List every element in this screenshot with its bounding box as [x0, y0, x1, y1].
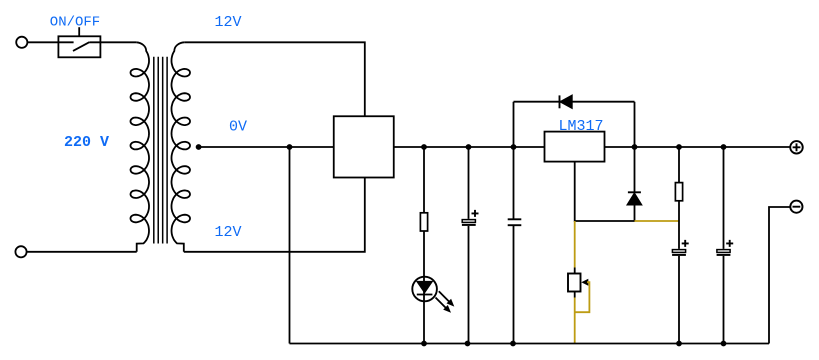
svg-text:12V: 12V — [215, 224, 242, 241]
node rail R2 branch — [676, 144, 682, 150]
LED D1 — [412, 277, 437, 302]
bridge rectifier B1 — [334, 116, 394, 177]
LED arrow 2 — [436, 298, 452, 313]
terminal minus — [790, 201, 802, 213]
wire LM317 output rail — [605, 146, 791, 148]
node ground rail LED — [421, 341, 427, 347]
node junction ground tap — [287, 144, 293, 150]
wire D3 branch vertical — [634, 102, 636, 221]
wire LED branch vertical — [423, 147, 425, 344]
wire C4 branch vertical — [723, 147, 725, 344]
wire minus terminal — [769, 207, 790, 344]
wire center tap to bridge — [198, 146, 334, 148]
node rail C2 branch — [511, 144, 517, 150]
potentiometer RV1 — [568, 274, 581, 292]
terminal input top — [16, 37, 27, 48]
wire adj down to pot yellow — [574, 221, 576, 268]
svg-text:ON/OFF: ON/OFF — [50, 14, 100, 30]
diode D3 — [628, 192, 642, 204]
transformer T1 primary winding — [131, 42, 150, 252]
wire C1 branch vertical — [468, 147, 470, 344]
diode D2 — [560, 95, 572, 108]
resistor R1 — [420, 213, 427, 231]
wire switch to transformer — [89, 41, 136, 43]
wire protection diode top — [514, 101, 635, 103]
node rail R-LED branch — [421, 144, 427, 150]
svg-text:220 V: 220 V — [64, 134, 109, 151]
wire secondary bottom to bridge — [184, 178, 365, 252]
wire adj to R2 yellow — [635, 220, 680, 222]
wire input bottom to primary — [27, 251, 137, 253]
wire input top to switch — [28, 41, 74, 43]
wire pot stubs — [574, 268, 576, 298]
terminal input bottom — [15, 246, 26, 257]
node rail C1 branch — [466, 144, 472, 150]
wire C2 branch vertical with top wire — [513, 102, 515, 344]
node ground rail C4 — [721, 341, 727, 347]
wire ground rail — [290, 343, 770, 345]
LED arrow 1 — [439, 291, 455, 306]
capacitor C3 polarized — [672, 240, 689, 255]
transformer T1 core — [154, 57, 167, 244]
node ground rail C2 — [510, 341, 516, 347]
node center tap 0V — [196, 144, 202, 150]
capacitor C2 — [508, 219, 522, 225]
node ground rail C3 — [676, 341, 682, 347]
wire R2 branch vertical — [678, 147, 680, 344]
regulator U1 LM317 — [545, 132, 605, 162]
transformer T1 secondary winding — [172, 42, 191, 252]
switch S1 — [58, 27, 100, 57]
wire LM317 adj pin — [575, 162, 635, 221]
wire bridge output rail — [394, 146, 545, 148]
capacitor C4 polarized — [717, 240, 734, 255]
node ground rail C1 — [465, 341, 471, 347]
terminal plus — [790, 141, 803, 154]
resistor R2 — [675, 183, 682, 201]
capacitor C1 polarized — [462, 210, 479, 225]
svg-text:0V: 0V — [229, 119, 247, 136]
wire junction down to bottom rail — [289, 147, 291, 344]
node rail D3 branch — [632, 144, 638, 150]
wire wiper yellow — [575, 282, 590, 312]
potentiometer wiper arrow — [581, 279, 588, 286]
node rail C4 branch — [721, 144, 727, 150]
wire secondary top to bridge — [184, 42, 365, 116]
wire pot to ground yellow — [574, 298, 576, 344]
svg-text:12V: 12V — [215, 14, 242, 31]
